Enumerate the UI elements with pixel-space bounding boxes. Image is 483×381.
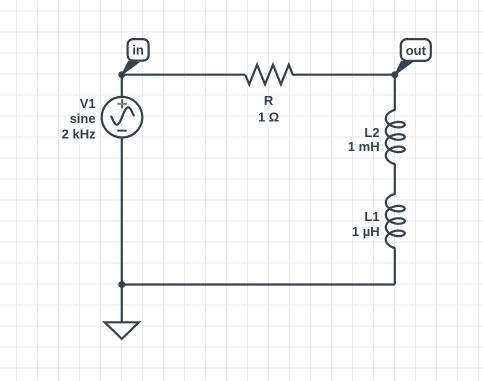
svg-text:R: R: [264, 93, 274, 108]
svg-text:1 mH: 1 mH: [348, 139, 380, 154]
net label out tail: [395, 61, 412, 75]
node dot out: [391, 71, 398, 78]
svg-text:V1: V1: [80, 96, 96, 111]
wire node out down to inductor L2: [394, 75, 396, 110]
wire between L2 and L1: [394, 164, 396, 194]
net label in tail: [122, 61, 139, 75]
svg-text:1 µH: 1 µH: [352, 224, 380, 239]
wire junction to ground: [121, 285, 123, 323]
svg-text:1 Ω: 1 Ω: [258, 110, 279, 125]
bottom wire: [122, 283, 395, 285]
svg-text:sine: sine: [70, 111, 96, 126]
resistor R: [245, 65, 293, 85]
inductor L1 coil: [386, 194, 405, 248]
sine wave inside V1: [111, 107, 133, 124]
svg-text:L1: L1: [364, 209, 379, 224]
svg-text:2 kHz: 2 kHz: [62, 127, 96, 142]
net label out box: [401, 39, 431, 61]
svg-text:out: out: [406, 43, 427, 58]
plus sign inside V1: [117, 99, 127, 108]
svg-text:L2: L2: [364, 125, 379, 140]
node dot bottom junction: [118, 281, 125, 288]
wire V1 bottom to bottom junction: [121, 138, 123, 285]
wire L1 bottom to corner: [394, 248, 396, 284]
wire node in down to V1 top: [121, 75, 123, 97]
svg-text:in: in: [132, 43, 144, 58]
wire resistor to node out: [292, 74, 394, 76]
voltage source V1 circle: [102, 97, 143, 138]
wire top-left from node in to resistor: [122, 74, 245, 76]
ground symbol: [105, 322, 139, 339]
net label in box: [128, 39, 149, 61]
inductor L2 coil: [386, 110, 405, 164]
minus sign inside V1: [117, 130, 126, 132]
node dot in: [118, 71, 125, 78]
